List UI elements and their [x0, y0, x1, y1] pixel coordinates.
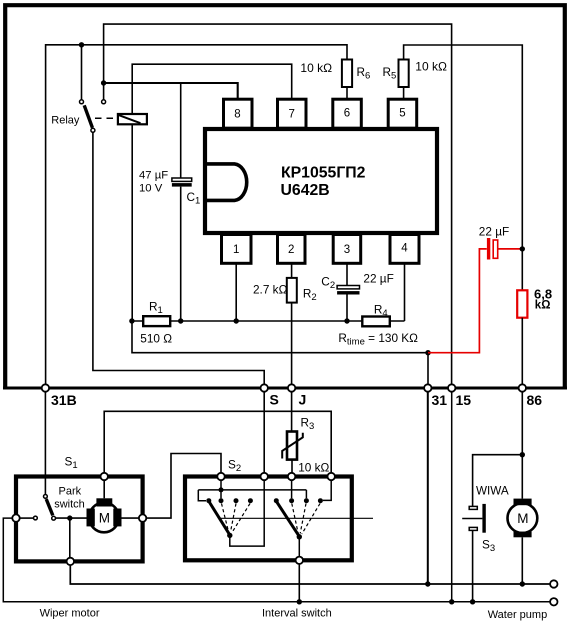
wiper motor M — [89, 503, 119, 533]
wire relay coil bottom to R1 — [131, 124, 133, 321]
wire left terminal to contact — [20, 517, 34, 519]
svg-text:U642B: U642B — [281, 182, 330, 199]
left wafer contacts — [206, 498, 211, 503]
bottom rail 2 — [3, 518, 550, 602]
node junction — [520, 452, 525, 457]
wire contact bus y=490 — [198, 489, 306, 491]
terminal 15 — [448, 384, 455, 391]
capacitor C1 47uF — [172, 178, 192, 181]
variable resistor R3 — [287, 432, 297, 460]
svg-text:КР1055ГП2: КР1055ГП2 — [281, 165, 366, 182]
IC U1 pin 6 — [333, 99, 362, 128]
svg-text:M: M — [99, 510, 110, 525]
wire to left contact 1 — [198, 490, 206, 501]
terminal J — [288, 384, 295, 391]
svg-text:Relay: Relay — [51, 115, 80, 127]
svg-text:22 µF: 22 µF — [479, 225, 509, 239]
svg-text:Wiper motor: Wiper motor — [40, 607, 100, 619]
node junction — [79, 42, 84, 47]
svg-text:2: 2 — [288, 244, 294, 256]
wire left common to S column — [230, 480, 264, 546]
wire to right contact 3 — [305, 490, 307, 498]
capacitor C (22 uF, red) — [487, 238, 490, 260]
svg-text:47 µF: 47 µF — [139, 169, 168, 181]
wire motor to right terminal — [122, 517, 139, 519]
wire right common to bottom terminal — [298, 537, 300, 557]
wire upper-right rail y=45 — [404, 45, 523, 249]
right wafer arm — [277, 502, 299, 536]
resistor R2 — [287, 278, 297, 303]
wire thick relay contact to pin8 — [104, 83, 238, 99]
wire 31 down to bottom rail — [427, 392, 429, 584]
resistor R1 — [143, 316, 170, 326]
wire interval common down — [298, 564, 300, 602]
wire top rail y=24 — [104, 24, 452, 384]
wire pin7 to relay coil top — [132, 64, 292, 114]
wire pin1 drop — [235, 263, 237, 321]
left wafer arm — [209, 502, 229, 534]
terminal 31 — [424, 384, 431, 391]
svg-text:15: 15 — [456, 392, 472, 408]
wire C1 column — [180, 83, 182, 178]
svg-text:10 V: 10 V — [139, 182, 163, 194]
wire relay arm to terminal S — [93, 132, 264, 384]
right wafer contacts — [274, 498, 279, 503]
wire R-time to terminal 31 — [132, 321, 428, 384]
svg-text:1: 1 — [233, 244, 239, 256]
wire upper-left rail y=44.8 — [46, 45, 347, 385]
svg-text:switch: switch — [54, 499, 85, 511]
park switch S1 — [44, 495, 48, 499]
wire junction to bottom terminal — [69, 518, 71, 558]
IC U1 pin 7 — [278, 99, 307, 128]
terminal 86 — [519, 384, 526, 391]
IC U1 pin 8 — [224, 99, 253, 128]
relay actuator dashed link — [95, 117, 118, 119]
svg-text:2.7 kΩ: 2.7 kΩ — [253, 283, 288, 297]
interval box terminals — [217, 473, 224, 480]
wire pin3 / C2 column — [346, 263, 348, 285]
terminal S — [261, 384, 268, 391]
wire park contact to motor — [56, 517, 87, 519]
capacitor C2 — [337, 286, 359, 289]
svg-text:WIWA: WIWA — [476, 484, 509, 497]
IC U1 pin 3 — [333, 235, 361, 264]
resistor R6 — [342, 60, 352, 88]
svg-text:6: 6 — [344, 108, 350, 120]
terminal 31B — [42, 384, 49, 391]
svg-text:kΩ: kΩ — [535, 300, 551, 312]
right wafer dashed positions — [292, 504, 298, 534]
svg-text:5: 5 — [399, 108, 405, 120]
wire J terminal into box — [291, 480, 293, 498]
wire bottom rail y=321 — [132, 320, 405, 322]
resistor 6,8 kOhm (red) — [517, 290, 527, 317]
svg-text:22 µF: 22 µF — [363, 272, 393, 286]
IC U1 pin 1 — [222, 235, 252, 264]
red wire cap to junction — [498, 248, 522, 250]
switch S3 WIWA — [473, 455, 523, 507]
wiper box terminals — [101, 473, 108, 480]
interval switch box — [185, 477, 352, 561]
node junction — [219, 487, 224, 492]
wire 86 down to water pump — [521, 392, 523, 499]
red wire from R-time node to 22uF cap — [428, 249, 487, 353]
IC U1 pin 4 — [390, 235, 419, 264]
svg-text:Water pump: Water pump — [488, 609, 548, 621]
IC U1 body KR1055GP2 — [205, 129, 437, 233]
node junction — [425, 350, 430, 355]
wire 31B down to park switch — [44, 392, 46, 495]
svg-text:7: 7 — [289, 109, 295, 121]
wire junction to 6.8k resistor — [521, 249, 523, 290]
svg-text:8: 8 — [234, 109, 240, 121]
resistor R4 — [362, 317, 390, 327]
wire terminal 4 to right contact 4 — [323, 480, 331, 500]
IC U1 pin 2 — [278, 235, 306, 264]
svg-text:510 Ω: 510 Ω — [140, 332, 172, 346]
svg-text:10 kΩ: 10 kΩ — [300, 61, 332, 75]
svg-text:S: S — [270, 392, 279, 408]
svg-text:Interval switch: Interval switch — [262, 608, 332, 620]
bus bar (box bottom edge) — [3, 387, 567, 390]
relay switch contact circles — [80, 100, 84, 104]
node junction — [520, 246, 525, 251]
mechanical coupling bar — [220, 517, 373, 519]
wiper motor box — [16, 477, 143, 562]
wire wiper-top to interval terminal 4 — [104, 411, 331, 473]
svg-text:J: J — [299, 392, 307, 408]
svg-text:31: 31 — [432, 392, 448, 408]
wire R5 bottom to pin5 — [403, 87, 405, 99]
wire pin2 / R2 column to terminal J — [291, 263, 293, 278]
relay switch arm — [84, 105, 92, 127]
svg-text:3: 3 — [344, 244, 350, 256]
wire pin4 drop — [404, 263, 406, 321]
wire S2 terminal into box — [220, 480, 222, 498]
svg-text:10 kΩ: 10 kΩ — [298, 461, 329, 475]
svg-text:86: 86 — [527, 392, 543, 408]
wire top terminal to motor — [103, 480, 105, 498]
wire S down to interval switch — [263, 392, 265, 473]
wire J down to R3 — [291, 392, 293, 432]
main control-box border — [5, 5, 565, 388]
wire 15 down to bottom rail 2 — [451, 392, 453, 602]
wire relay NC branch — [81, 45, 83, 100]
svg-text:10 kΩ: 10 kΩ — [415, 60, 447, 74]
relay coil K1 — [118, 114, 147, 124]
svg-text:M: M — [517, 511, 528, 526]
IC pin1 D-notch — [207, 164, 247, 201]
wire resistor to terminal 86 — [521, 318, 523, 385]
wire pump to bottom rail — [521, 537, 523, 584]
water pump motor M — [508, 503, 538, 533]
svg-text:Park: Park — [59, 485, 82, 497]
svg-text:4: 4 — [401, 243, 408, 255]
svg-text:31В: 31В — [51, 392, 77, 408]
node junction — [101, 80, 106, 85]
bottom rail 1 — [70, 565, 550, 584]
node junction dots on rail — [129, 318, 134, 323]
wire motor right to S2 — [146, 454, 221, 519]
node junction — [67, 515, 72, 520]
IC U1 pin 5 — [388, 99, 417, 128]
resistor R5 — [399, 60, 409, 88]
left wafer dashed positions — [222, 504, 229, 533]
wire R6 bottom to pin6 — [346, 87, 348, 99]
